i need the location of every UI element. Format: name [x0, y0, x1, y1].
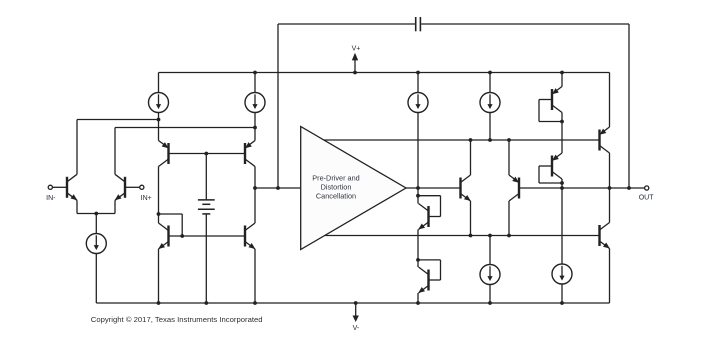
svg-text:Copyright © 2017, Texas Instru: Copyright © 2017, Texas Instruments Inco… — [91, 315, 263, 324]
svg-text:Cancellation: Cancellation — [316, 192, 356, 201]
svg-text:Pre-Driver and: Pre-Driver and — [312, 173, 359, 182]
svg-text:OUT: OUT — [639, 194, 655, 201]
svg-text:IN+: IN+ — [141, 195, 152, 202]
svg-text:IN-: IN- — [46, 195, 56, 202]
svg-text:V-: V- — [353, 325, 360, 332]
svg-text:V+: V+ — [352, 46, 361, 53]
svg-text:Distortion: Distortion — [321, 182, 352, 191]
